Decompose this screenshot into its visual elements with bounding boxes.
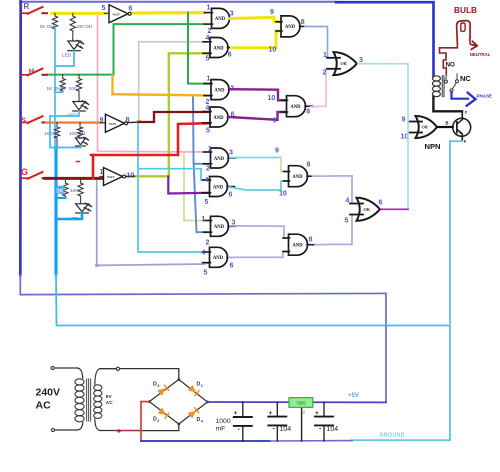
svg-text:6: 6	[129, 6, 133, 13]
svg-text:5: 5	[206, 128, 210, 135]
svg-text:+: +	[269, 410, 273, 417]
svg-text:AND: AND	[214, 225, 225, 230]
svg-text:AND: AND	[292, 244, 303, 249]
svg-text:NPN: NPN	[425, 142, 441, 151]
svg-text:6: 6	[228, 52, 232, 59]
svg-text:100 OM: 100 OM	[69, 131, 86, 136]
svg-text:1K: 1K	[57, 189, 64, 195]
svg-text:9: 9	[270, 9, 274, 16]
svg-text:2: 2	[206, 240, 210, 247]
svg-text:1: 1	[202, 216, 206, 223]
svg-text:+5V: +5V	[348, 393, 359, 399]
svg-text:B: B	[446, 121, 449, 126]
svg-text:1K OH: 1K OH	[40, 24, 55, 30]
svg-text:4: 4	[205, 177, 209, 184]
svg-text:100 OH: 100 OH	[76, 24, 93, 30]
svg-text:7805: 7805	[296, 400, 306, 405]
svg-text:NOT: NOT	[109, 122, 117, 126]
svg-text:104: 104	[280, 426, 292, 433]
svg-text:c: c	[465, 110, 468, 115]
svg-text:8: 8	[309, 237, 313, 244]
svg-text:5: 5	[345, 218, 349, 225]
svg-text:8: 8	[307, 162, 311, 169]
svg-text:NC: NC	[460, 74, 471, 83]
svg-text:2: 2	[157, 419, 159, 423]
svg-text:1000: 1000	[216, 418, 231, 425]
svg-text:+: +	[234, 410, 238, 417]
svg-text:BULB: BULB	[454, 5, 477, 15]
svg-text:H: H	[29, 66, 34, 75]
svg-text:104: 104	[327, 426, 339, 433]
svg-text:1: 1	[207, 5, 211, 12]
svg-text:OR: OR	[422, 125, 429, 130]
svg-text:+: +	[315, 410, 319, 417]
svg-text:6: 6	[230, 263, 234, 270]
svg-text:PHASE: PHASE	[477, 94, 493, 99]
svg-text:240V: 240V	[36, 387, 61, 399]
svg-text:9: 9	[100, 117, 104, 124]
svg-text:4: 4	[202, 250, 206, 257]
svg-text:4: 4	[206, 35, 210, 42]
svg-text:AND: AND	[213, 256, 224, 261]
svg-text:10: 10	[268, 95, 276, 102]
svg-text:NEUTRAL: NEUTRAL	[470, 52, 491, 57]
svg-text:6: 6	[229, 192, 233, 199]
svg-text:mF: mF	[216, 426, 226, 433]
svg-text:1: 1	[323, 52, 327, 59]
svg-text:8: 8	[301, 19, 305, 26]
svg-text:1K OM: 1K OM	[44, 131, 58, 136]
svg-text:AND: AND	[215, 17, 226, 22]
svg-text:GROUND: GROUND	[380, 433, 405, 439]
svg-text:AC: AC	[106, 400, 113, 406]
svg-text:AC: AC	[36, 400, 52, 412]
svg-text:2: 2	[206, 166, 210, 173]
svg-text:AND: AND	[213, 46, 224, 51]
svg-text:2: 2	[208, 28, 212, 35]
svg-text:1: 1	[100, 169, 104, 176]
svg-text:5: 5	[206, 56, 210, 63]
svg-text:R: R	[24, 2, 30, 11]
svg-text:10: 10	[279, 191, 287, 198]
svg-text:AND: AND	[214, 88, 225, 93]
svg-text:3: 3	[157, 384, 159, 388]
svg-text:NOT: NOT	[113, 12, 121, 16]
svg-text:9: 9	[275, 148, 279, 155]
svg-text:5: 5	[204, 270, 208, 277]
svg-text:OR: OR	[340, 61, 347, 66]
svg-text:1: 1	[207, 76, 211, 83]
svg-text:1: 1	[208, 146, 212, 153]
svg-text:9: 9	[402, 117, 406, 124]
svg-text:1K OHM: 1K OHM	[47, 86, 65, 92]
svg-text:AND: AND	[214, 157, 225, 162]
svg-text:LED: LED	[62, 52, 72, 58]
svg-text:9: 9	[273, 118, 277, 125]
svg-text:3: 3	[229, 150, 233, 157]
svg-text:AND: AND	[292, 175, 303, 180]
svg-text:OR: OR	[363, 207, 370, 212]
svg-text:3: 3	[230, 11, 234, 18]
svg-text:1: 1	[201, 384, 203, 388]
svg-text:AND: AND	[290, 105, 301, 110]
svg-text:5: 5	[205, 199, 209, 206]
svg-text:NOT: NOT	[107, 175, 115, 179]
svg-text:8: 8	[306, 109, 310, 116]
svg-text:9V: 9V	[106, 394, 113, 400]
svg-text:AND: AND	[285, 25, 296, 30]
svg-text:2: 2	[323, 70, 327, 77]
svg-text:6: 6	[379, 200, 383, 207]
svg-text:10: 10	[269, 47, 277, 54]
svg-text:4: 4	[346, 198, 350, 205]
svg-text:AND: AND	[213, 116, 224, 121]
svg-text:G: G	[21, 167, 28, 177]
svg-text:5: 5	[102, 5, 106, 12]
svg-text:100: 100	[70, 188, 78, 194]
svg-text:AND: AND	[213, 185, 224, 190]
svg-text:100: 100	[69, 86, 77, 92]
svg-text:4: 4	[206, 105, 210, 112]
